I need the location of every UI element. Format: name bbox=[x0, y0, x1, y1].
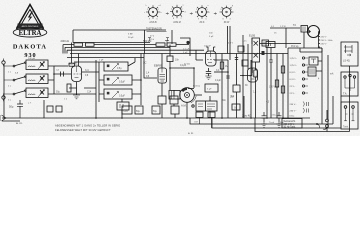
wire NF drop bbox=[285, 28, 287, 48]
wire vertical x283 bbox=[282, 54, 284, 119]
svg-text:50µ: 50µ bbox=[153, 111, 158, 113]
cap C36 bbox=[235, 58, 238, 60]
earth terminal bbox=[2, 96, 5, 99]
svg-text:5 µF: 5 µF bbox=[183, 52, 188, 54]
wire x144 upper bbox=[144, 30, 146, 54]
T4 core 1 bbox=[254, 41, 259, 46]
mains label box bbox=[282, 119, 302, 129]
wire V2 feed bbox=[144, 54, 157, 79]
band switch blade 2 bbox=[15, 77, 25, 80]
cap box C38 bbox=[242, 60, 248, 66]
svg-text:d: d bbox=[185, 12, 186, 14]
test tap mark 1 bbox=[148, 38, 151, 41]
coupling cap C21 bbox=[167, 56, 173, 62]
wire mains row bbox=[300, 48, 322, 52]
svg-text:C14: C14 bbox=[87, 92, 92, 94]
resistor R4 bbox=[86, 43, 95, 46]
det input circle bbox=[192, 105, 194, 107]
el cap C19 bbox=[171, 106, 179, 114]
output transformer T2 bbox=[301, 26, 308, 33]
wire vertical x277 bbox=[276, 54, 278, 119]
T2 windings bbox=[303, 27, 305, 32]
svg-text:1,25 V~: 1,25 V~ bbox=[290, 58, 298, 60]
main ground bus bbox=[2, 117, 310, 119]
coil L2 winding bbox=[28, 80, 35, 81]
coil L3 core bbox=[40, 90, 44, 95]
switch pointer arrow 1 bbox=[166, 13, 169, 15]
ratio det text bbox=[198, 104, 215, 109]
wire det row bbox=[170, 68, 194, 89]
svg-text:4: 4 bbox=[230, 19, 231, 21]
wire T2 link bbox=[308, 28, 310, 30]
coil L2 core dot bbox=[41, 77, 43, 79]
nested bus 1 bbox=[190, 96, 333, 124]
svg-text:4: 4 bbox=[158, 9, 159, 11]
ground sym 1 bbox=[261, 122, 267, 127]
wire vertical x236 bbox=[236, 54, 238, 86]
wire T2 down bbox=[303, 32, 305, 48]
wire switch feeds bbox=[4, 66, 13, 94]
wire to V1 grid bbox=[54, 73, 71, 75]
svg-text:1M: 1M bbox=[225, 66, 228, 68]
svg-text:200 kΩ: 200 kΩ bbox=[61, 39, 69, 43]
el cap C17 bbox=[135, 106, 143, 114]
svg-text:47 kΩ: 47 kΩ bbox=[184, 64, 190, 66]
osc coil box L6 bbox=[104, 89, 132, 99]
V2 bypass box bbox=[170, 96, 178, 104]
svg-text:5 µF: 5 µF bbox=[207, 89, 212, 91]
rotary switch S1a bbox=[144, 5, 163, 24]
svg-text:C16: C16 bbox=[124, 111, 129, 113]
bus cap box C27 bbox=[208, 112, 215, 118]
svg-text:21 V~: 21 V~ bbox=[290, 86, 296, 88]
chassis arrow left bbox=[0, 115, 6, 121]
band switch contact 2 bbox=[13, 79, 15, 81]
junction dots bbox=[3, 67, 284, 119]
wire vertical x267 bbox=[266, 48, 268, 119]
svg-text:7: 7 bbox=[181, 18, 182, 20]
TA pin wires bbox=[345, 77, 355, 91]
svg-text:1C: 1C bbox=[143, 61, 146, 65]
osc coil L4 core bbox=[107, 65, 110, 68]
trafo box bbox=[308, 67, 316, 76]
wire corner grid cap bbox=[180, 38, 190, 56]
logo triangle outer bbox=[17, 5, 44, 30]
cathode resistor R38 bbox=[254, 70, 257, 77]
LS arrow bbox=[347, 54, 351, 56]
gang skirt bbox=[191, 96, 196, 103]
switch pointer arrow 3 bbox=[214, 13, 217, 15]
svg-text:Tonb.: Tonb. bbox=[343, 126, 349, 128]
wire x327 drop bbox=[326, 110, 328, 132]
wire vertical x248 bbox=[247, 44, 249, 70]
wire mixer riser bbox=[84, 60, 96, 118]
svg-text:LS 4Ω: LS 4Ω bbox=[343, 60, 350, 63]
TB pin 2 bbox=[352, 106, 355, 109]
svg-text:EBF89: EBF89 bbox=[154, 64, 163, 68]
decoupling box R8 bbox=[47, 106, 53, 112]
panel row 3 bbox=[290, 71, 309, 74]
wire vertical x251 bbox=[250, 60, 252, 118]
coil L1 trimmer arrow bbox=[38, 62, 45, 70]
panel row 2 bbox=[290, 64, 309, 67]
svg-text:3: 3 bbox=[207, 9, 208, 11]
fuse box bbox=[309, 57, 318, 65]
svg-text:2: 2 bbox=[171, 9, 172, 11]
wire row b1 bbox=[54, 65, 68, 67]
cap box C39 bbox=[262, 40, 269, 46]
svg-text:2: 2 bbox=[147, 9, 148, 11]
wire x172 upper bbox=[171, 30, 173, 44]
wire aux vertical bbox=[327, 55, 329, 128]
svg-text:ANS.M: ANS.M bbox=[173, 21, 181, 24]
wire speaker taps bbox=[319, 32, 321, 49]
AGC line wire bbox=[63, 44, 189, 46]
svg-text:c: c bbox=[144, 12, 145, 14]
el cap C16 bbox=[122, 106, 132, 114]
wire padder drop bbox=[121, 99, 123, 118]
svg-text:ABCD·ZENTRALE: ABCD·ZENTRALE bbox=[22, 25, 39, 28]
coil box L1 bbox=[26, 60, 48, 70]
wire T4 down bbox=[255, 62, 257, 70]
wire vertical x222 bbox=[221, 54, 223, 119]
resistor R42 bbox=[281, 66, 284, 73]
test tap mark 2 bbox=[166, 38, 169, 41]
svg-text:2: 2 bbox=[221, 9, 222, 11]
svg-text:50 Hz Tonb.: 50 Hz Tonb. bbox=[284, 127, 297, 129]
wire fuse column bbox=[316, 48, 322, 124]
band switch contact 3 bbox=[13, 93, 15, 95]
comp box C37 bbox=[238, 46, 244, 52]
svg-text:T.A.: T.A. bbox=[343, 93, 347, 96]
band switch contact 1 bbox=[13, 65, 15, 67]
osc coil L5 core bbox=[107, 78, 110, 81]
panel row 6 bbox=[290, 92, 309, 95]
svg-text:6: 6 bbox=[157, 19, 158, 21]
wire V1 anode out bbox=[82, 71, 99, 73]
wire V2 cathode down bbox=[161, 83, 163, 118]
svg-text:5 pF: 5 pF bbox=[209, 36, 214, 38]
el cap C18 bbox=[152, 106, 160, 114]
nested bus 2 bbox=[212, 96, 341, 128]
svg-text:220-240 V~: 220-240 V~ bbox=[284, 124, 297, 126]
C40 marks bbox=[269, 43, 271, 46]
wire R33 drop bbox=[236, 92, 238, 118]
svg-text:220 V~: 220 V~ bbox=[321, 37, 328, 39]
wire V3 in bbox=[196, 50, 203, 60]
panel row 7 bbox=[290, 102, 309, 107]
wire V1 grid cap riser bbox=[71, 43, 73, 64]
svg-text:ZF.W: ZF.W bbox=[224, 21, 230, 24]
T4 core 2 bbox=[254, 53, 259, 58]
svg-text:3,4: 3,4 bbox=[85, 69, 89, 72]
resistor R43 bbox=[281, 86, 284, 93]
band switch blade 1 bbox=[15, 63, 25, 66]
C39 marks bbox=[264, 42, 266, 45]
svg-text:a. m.: a. m. bbox=[188, 132, 194, 135]
tuning gang bbox=[180, 88, 195, 103]
wire V2 bypass drop bbox=[173, 90, 175, 106]
fuse mark bbox=[311, 59, 316, 63]
wire vertical x271 bbox=[270, 48, 272, 61]
electrolytic C30 bbox=[17, 100, 23, 118]
coil L1 core dot bbox=[41, 63, 43, 65]
AF box bbox=[205, 84, 218, 92]
TB socket box bbox=[341, 102, 358, 129]
tube V2 EBF89 bbox=[158, 68, 167, 83]
wire coil output bus bbox=[53, 66, 55, 94]
svg-text:2 ou 4Ω: 2 ou 4Ω bbox=[242, 113, 251, 117]
tube V3 EF89 bbox=[206, 51, 217, 66]
wire x252 top bbox=[251, 38, 253, 44]
capacitor C35 bbox=[226, 76, 229, 78]
EM80 internals bbox=[250, 68, 257, 79]
junction circle 3 bbox=[326, 125, 329, 128]
wire riser V1 anode bbox=[78, 54, 80, 67]
svg-text:230 V~ 50Hz: 230 V~ 50Hz bbox=[321, 40, 333, 42]
svg-text:1: 1 bbox=[196, 9, 197, 11]
ground sym 2 bbox=[276, 122, 282, 127]
ground V1 bbox=[73, 95, 80, 99]
svg-text:240 µH: 240 µH bbox=[28, 58, 36, 60]
voltage panel top edge bbox=[288, 47, 322, 49]
svg-text:g: g bbox=[232, 5, 233, 7]
coil L3 core dot bbox=[41, 91, 43, 93]
grid blob 2 bbox=[262, 51, 265, 55]
svg-text:6,3 V~: 6,3 V~ bbox=[290, 79, 297, 81]
dial drive box bbox=[169, 91, 180, 100]
cathode resistor R5 bbox=[67, 84, 71, 92]
tube V1 ECH81 bbox=[72, 66, 82, 82]
wire C41 drop bbox=[270, 62, 272, 118]
svg-text:A.M.: A.M. bbox=[181, 103, 187, 107]
coil L2 core bbox=[40, 76, 44, 81]
LS plug icon bbox=[344, 45, 352, 53]
wire C26 stub bbox=[199, 118, 201, 125]
svg-text:Prüf.sp.: Prüf.sp. bbox=[291, 45, 299, 48]
svg-text:ZF.K: ZF.K bbox=[200, 21, 205, 24]
rotary speck labels bbox=[147, 9, 232, 21]
band switch blade 3 bbox=[15, 91, 25, 94]
svg-text:k: k bbox=[146, 5, 147, 7]
wires coil outputs bbox=[48, 66, 54, 94]
svg-text:FELDMESSER WELT MIT 30 MV GEPR: FELDMESSER WELT MIT 30 MV GEPRUFT bbox=[55, 128, 111, 132]
fuse Si bbox=[232, 104, 240, 110]
svg-text:C50a: C50a bbox=[289, 116, 295, 118]
gang rotor arc bbox=[182, 88, 188, 92]
nested bus 3 bbox=[255, 66, 350, 132]
osc coil box L4 bbox=[104, 62, 128, 71]
wire row b3 bbox=[54, 93, 96, 95]
svg-text:230 V~: 230 V~ bbox=[290, 104, 298, 106]
junction circle 2 bbox=[326, 119, 329, 122]
cap C51 bbox=[277, 112, 282, 122]
wire R38 drop bbox=[255, 77, 257, 118]
svg-text:ECH81: ECH81 bbox=[69, 62, 78, 66]
grid blob bbox=[186, 41, 189, 44]
rotary switch S1b bbox=[170, 5, 186, 25]
svg-text:mA: mA bbox=[330, 73, 334, 76]
wire det drop bbox=[209, 96, 211, 118]
gang hub dot bbox=[186, 94, 188, 96]
svg-text:0,5µ: 0,5µ bbox=[117, 68, 122, 70]
rotary switch S1d bbox=[220, 5, 234, 24]
bottom stub line bbox=[2, 120, 20, 122]
screen bus wire bbox=[67, 49, 204, 51]
V1 grid cap bbox=[69, 63, 75, 66]
gang shaft wire bbox=[194, 94, 202, 96]
svg-text:EL95: EL95 bbox=[249, 34, 256, 38]
wire V3 pins top bbox=[206, 47, 215, 51]
svg-text:5: 5 bbox=[206, 19, 207, 21]
trafo marks bbox=[310, 69, 314, 75]
svg-text:4,3 V: 4,3 V bbox=[228, 43, 234, 45]
tube EM80 bbox=[248, 68, 258, 82]
logo oval bbox=[13, 28, 47, 37]
svg-text:170 V: 170 V bbox=[269, 87, 275, 89]
logo band bbox=[18, 24, 42, 28]
resistor R21 bbox=[156, 43, 165, 46]
switch harness band top bbox=[73, 29, 166, 31]
coil L2 trimmer arrow bbox=[38, 76, 45, 84]
coupling box C40 bbox=[266, 42, 275, 48]
tast underline bbox=[147, 31, 167, 33]
decoupling box C8 bbox=[56, 106, 62, 112]
wire C19 drop bbox=[174, 114, 176, 118]
wire gang down bbox=[186, 102, 188, 118]
IF coil bus right bbox=[140, 54, 142, 106]
osc coil L6 arrow bbox=[112, 92, 119, 99]
coil L3 winding bbox=[28, 94, 35, 95]
LS socket box bbox=[341, 42, 358, 66]
rotary switch S1c bbox=[195, 5, 211, 24]
osc coil L5 arrow bbox=[112, 78, 119, 85]
speaker bbox=[308, 26, 320, 38]
AVC bus wire bbox=[65, 46, 170, 48]
wire T4 anode bbox=[260, 43, 302, 45]
svg-text:50µ: 50µ bbox=[9, 105, 14, 109]
coil box L2 bbox=[26, 74, 48, 84]
bus cap box C26 bbox=[196, 112, 203, 118]
svg-text:21 V~: 21 V~ bbox=[290, 93, 296, 95]
svg-text:a. m.: a. m. bbox=[16, 121, 23, 125]
svg-text:230 V~: 230 V~ bbox=[290, 110, 298, 112]
panel row 1 bbox=[290, 57, 309, 60]
svg-text:0,1 µF: 0,1 µF bbox=[183, 49, 190, 51]
wire C27 stub bbox=[211, 118, 213, 129]
IF coil bus left bbox=[99, 62, 104, 102]
V2 cathode box bbox=[158, 96, 166, 104]
coil L1 core bbox=[40, 62, 44, 67]
osc coil L6 core bbox=[107, 92, 110, 95]
svg-text:6,3 V~: 6,3 V~ bbox=[290, 72, 297, 74]
wire row y57 bbox=[67, 57, 144, 59]
antenna lead wire bbox=[3, 65, 5, 119]
svg-text:8: 8 bbox=[223, 19, 224, 21]
logo lightning bolt bbox=[28, 12, 34, 23]
osc coil L4 arrow bbox=[112, 64, 119, 71]
coil L1 winding bbox=[28, 66, 35, 67]
wire avc riser bbox=[169, 45, 171, 90]
svg-text:6 BE: 6 BE bbox=[128, 34, 133, 36]
TB pin 1 bbox=[344, 106, 347, 109]
svg-text:DAKOTA: DAKOTA bbox=[13, 43, 47, 50]
ground V3 bbox=[205, 76, 211, 80]
svg-text:Netzanschl.: Netzanschl. bbox=[284, 120, 296, 123]
voltage panel left edge bbox=[287, 48, 289, 118]
svg-text:5: 5 bbox=[182, 9, 183, 11]
ratio det divider bbox=[205, 101, 207, 111]
resistor R31 bbox=[220, 62, 223, 69]
dial drive marks bbox=[172, 91, 175, 100]
junction dot 1 bbox=[316, 123, 318, 125]
svg-text:30 pF: 30 pF bbox=[128, 37, 134, 39]
cap C50 bbox=[262, 112, 267, 122]
wire left bus risers bbox=[63, 45, 67, 54]
panel row 8 bbox=[290, 108, 309, 113]
gang inner bbox=[185, 93, 190, 98]
TB arrows bbox=[346, 113, 354, 115]
padder marks bbox=[120, 104, 123, 108]
antenna terminal bbox=[2, 61, 5, 64]
wire x243 top bbox=[242, 35, 244, 118]
svg-text:240 V~: 240 V~ bbox=[321, 44, 328, 46]
padder box bbox=[117, 102, 129, 110]
paper speckle bbox=[0, 0, 360, 136]
capacitor C2 bbox=[61, 72, 64, 77]
wires coil bank right bbox=[128, 58, 141, 94]
wire if pair drop bbox=[228, 26, 231, 60]
svg-text:9: 9 bbox=[198, 19, 199, 21]
panel row 4 bbox=[290, 78, 309, 81]
svg-text:2 pF: 2 pF bbox=[99, 60, 104, 62]
B+ bus wire bbox=[70, 53, 288, 55]
test point T bbox=[165, 41, 169, 47]
svg-text:6: 6 bbox=[231, 9, 232, 11]
plug hook bbox=[317, 124, 327, 129]
svg-text:1,2 W: 1,2 W bbox=[280, 26, 287, 28]
svg-text:8: 8 bbox=[173, 18, 174, 20]
NF coupling wire bbox=[270, 27, 300, 29]
TA pins bbox=[344, 76, 346, 78]
speaker wedge bbox=[308, 29, 311, 33]
svg-text:50µ: 50µ bbox=[56, 92, 61, 94]
ratio det box bbox=[196, 101, 217, 111]
svg-text:0,1µF: 0,1µF bbox=[215, 80, 222, 82]
comp box R33 bbox=[233, 85, 240, 92]
svg-text:ANS.B: ANS.B bbox=[149, 21, 157, 24]
resistor R22 bbox=[167, 43, 176, 46]
switch pointer arrow 2 bbox=[190, 13, 193, 15]
svg-text:1,25 V~: 1,25 V~ bbox=[290, 65, 298, 67]
svg-text:10n: 10n bbox=[175, 59, 180, 62]
svg-text:0,5µF: 0,5µF bbox=[119, 96, 126, 98]
svg-text:Tisch: Tisch bbox=[269, 122, 275, 124]
switch harness band left bbox=[72, 30, 74, 43]
svg-text:50µ: 50µ bbox=[136, 111, 141, 113]
wire IF link bbox=[240, 60, 252, 76]
wire V2 top bbox=[161, 54, 163, 69]
wire V3 out bbox=[214, 60, 228, 118]
resistor R3 bbox=[74, 43, 83, 46]
capacitor C41 bbox=[269, 60, 272, 62]
osc coil box L5 bbox=[104, 75, 132, 85]
wire V3 row bbox=[214, 71, 228, 73]
wire L3 bottom drop bbox=[43, 100, 45, 118]
svg-text:0,5µF: 0,5µF bbox=[119, 82, 126, 84]
V3 cathode chain bbox=[206, 68, 211, 76]
IF can T4 bbox=[252, 38, 260, 62]
